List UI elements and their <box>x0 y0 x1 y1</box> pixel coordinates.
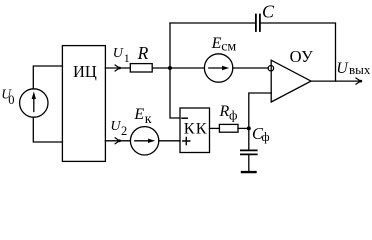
wire C_ф to ground <box>248 154 250 171</box>
arrow U2 <box>115 138 119 144</box>
node junction A <box>168 66 172 70</box>
wire E_sm to opamp <box>233 67 268 69</box>
wire output <box>311 80 361 82</box>
svg-text:E: E <box>211 35 222 52</box>
wire U2 <box>105 140 130 142</box>
wire U0 bottom to block <box>33 117 62 142</box>
svg-text:ф: ф <box>229 107 237 122</box>
op-amp ОУ <box>271 60 311 102</box>
svg-text:1: 1 <box>124 51 130 65</box>
svg-text:2: 2 <box>121 124 127 138</box>
node U0 label <box>1 86 14 107</box>
node U1 label <box>113 46 130 65</box>
ground <box>242 171 256 173</box>
pin plus (KK noninverting input) <box>183 137 190 144</box>
node junction B <box>247 126 251 130</box>
capacitor C <box>255 15 257 32</box>
wire E_k to KK <box>159 140 180 142</box>
svg-text:см: см <box>221 40 236 55</box>
svg-text:вых: вых <box>349 62 371 77</box>
block IC (measuring circuit ИЦ) <box>62 46 105 162</box>
wire KK out <box>210 127 220 129</box>
svg-text:U: U <box>113 46 124 61</box>
svg-text:КК: КК <box>184 119 208 138</box>
svg-text:U: U <box>110 119 121 134</box>
wire feedback top <box>170 22 256 24</box>
resistor R <box>130 64 152 72</box>
wire R_ф to node B <box>238 127 249 129</box>
node U2 label <box>110 119 127 138</box>
svg-text:E: E <box>133 106 144 123</box>
svg-text:C: C <box>262 2 275 22</box>
wire R to E_sm <box>152 67 204 69</box>
svg-text:ОУ: ОУ <box>290 47 314 66</box>
arrow U1 <box>115 65 119 71</box>
svg-text:0: 0 <box>8 93 14 107</box>
svg-text:R: R <box>137 43 149 63</box>
inverting input bubble <box>268 66 273 71</box>
wire node A down to KK <box>170 23 180 118</box>
wire U1 <box>105 67 130 69</box>
wire C to output <box>260 23 335 81</box>
svg-text:R: R <box>219 103 230 120</box>
svg-text:U: U <box>336 60 349 77</box>
arrow U_out <box>356 78 361 84</box>
voltage source E_см <box>204 54 232 82</box>
wire noninverting input from node B <box>249 93 271 150</box>
wire U0 top to block <box>33 66 62 89</box>
resistor R_ф <box>219 124 238 132</box>
voltage source E_к <box>130 127 158 155</box>
svg-text:к: к <box>145 112 152 127</box>
voltage source U0 <box>20 89 48 117</box>
capacitor C_ф <box>241 149 257 151</box>
svg-text:ф: ф <box>262 130 270 144</box>
pin minus (KK inverting input) <box>182 117 187 119</box>
svg-text:ИЦ: ИЦ <box>73 62 97 81</box>
block KK (compensating circuit КК) <box>180 108 210 153</box>
node U_out label <box>336 60 371 77</box>
